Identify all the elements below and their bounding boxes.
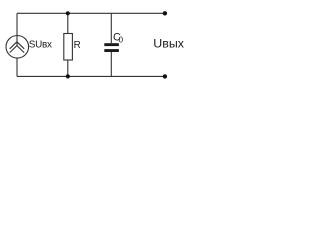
svg-text:Uвых: Uвых — [153, 36, 184, 50]
svg-text:R: R — [74, 40, 81, 51]
svg-text:0: 0 — [119, 35, 124, 44]
svg-text:SUвх: SUвх — [29, 39, 52, 50]
